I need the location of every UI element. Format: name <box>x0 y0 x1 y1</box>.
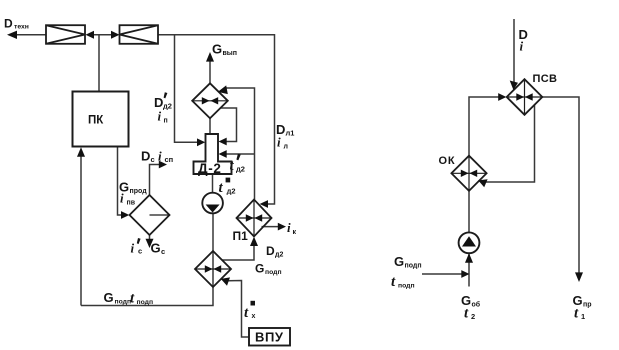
svg-text:i: i <box>158 149 162 164</box>
svg-text:с: с <box>138 247 142 256</box>
svg-text:ПК: ПК <box>88 115 104 127</box>
pump left <box>202 193 223 214</box>
svg-text:д2: д2 <box>236 165 245 174</box>
wire PSV condensate to OK <box>483 105 535 182</box>
svg-text:подп: подп <box>115 298 132 305</box>
wire drop to PK <box>98 35 100 92</box>
wire Gc outlet <box>149 235 151 240</box>
arrowhead into left reducer <box>86 31 95 39</box>
arrowhead Dtehn left <box>7 31 17 39</box>
wire ejector drain <box>220 108 237 142</box>
wire ejector to column <box>209 118 211 134</box>
wire Gpodp inlet right <box>422 273 462 275</box>
svg-text:i: i <box>120 191 124 206</box>
reducer valve right <box>120 25 159 44</box>
wire P1 to ejector <box>225 88 255 200</box>
bowtie OK <box>461 170 477 177</box>
svg-text:Д-2: Д-2 <box>198 161 221 176</box>
svg-text:подп: подп <box>398 283 415 290</box>
wire D-2 to pump <box>212 174 214 193</box>
svg-text:д2: д2 <box>163 101 172 110</box>
svg-text:с: с <box>161 247 165 256</box>
svg-text:сп: сп <box>165 155 174 164</box>
arrowhead ik out <box>278 223 286 231</box>
pump left triangle <box>206 205 220 213</box>
wire Dtehn outlet <box>14 34 46 36</box>
arrowhead VPU into mixer <box>221 277 230 285</box>
svg-text:i: i <box>131 241 135 256</box>
svg-text:техн: техн <box>14 24 29 31</box>
label Gpodp tpodp bottom <box>104 290 154 307</box>
svg-text:G: G <box>104 290 114 305</box>
arrowhead into P1 bottom <box>250 237 258 246</box>
svg-text:G: G <box>151 241 161 256</box>
svg-text:пр: пр <box>583 302 592 309</box>
wire between reducers <box>92 34 114 36</box>
svg-text:П1: П1 <box>233 229 249 243</box>
svg-text:ВПУ: ВПУ <box>255 330 284 345</box>
svg-text:ПСВ: ПСВ <box>533 73 558 85</box>
svg-text:л: л <box>284 144 288 151</box>
arrowhead Gpr down <box>575 272 583 282</box>
svg-text:i: i <box>158 109 162 124</box>
label Gpr t1 <box>573 293 592 322</box>
wire P1 side outlet <box>262 226 279 228</box>
svg-text:д2: д2 <box>227 187 236 196</box>
boiler PK box <box>73 92 129 147</box>
wire riser to P1 bottom <box>222 244 254 260</box>
arrowhead into right reducer <box>111 31 120 39</box>
label ik <box>287 220 297 236</box>
wire riser to D-2 left <box>175 35 199 143</box>
pump right triangle <box>462 236 476 246</box>
wire Gvyp riser <box>209 61 211 83</box>
expander diamond <box>130 195 170 235</box>
arrowhead into D-2 left <box>197 138 205 146</box>
svg-text:л1: л1 <box>286 129 295 138</box>
arrowhead into P1 top right <box>260 200 268 208</box>
svg-text:вып: вып <box>223 50 238 57</box>
label Dc isp <box>141 149 173 165</box>
arrowhead Gpodp right <box>461 270 469 278</box>
bowtie P1 <box>246 214 262 221</box>
bowtie mixer <box>205 265 221 272</box>
arrowhead Gvyp up <box>206 52 214 62</box>
reducer valve left <box>46 25 85 44</box>
arrowhead up into right pump <box>465 253 473 263</box>
arrowhead Gc down <box>146 239 154 248</box>
svg-text:подп: подп <box>137 299 154 306</box>
bowtie ejector <box>202 97 218 104</box>
svg-text:ОК: ОК <box>439 155 456 167</box>
label Gvyp <box>212 42 237 58</box>
wire feedwater to PK <box>80 156 82 306</box>
svg-text:2: 2 <box>471 312 475 321</box>
svg-text:i: i <box>277 135 281 150</box>
wire below pump <box>468 253 470 286</box>
label i'c <box>131 238 143 256</box>
svg-text:д2: д2 <box>275 252 283 259</box>
arrowhead into expander <box>121 211 129 219</box>
label t''d2 <box>219 178 236 196</box>
wire t'd2 branch <box>226 153 255 155</box>
svg-text:i: i <box>520 39 524 54</box>
svg-text:пв: пв <box>127 200 136 207</box>
svg-text:к: к <box>293 229 297 236</box>
svg-text:с: с <box>151 155 155 164</box>
svg-text:G: G <box>255 262 264 276</box>
bowtie PSV <box>516 93 532 100</box>
label Gpodp right of mixer <box>255 262 282 277</box>
label D i right <box>519 27 528 54</box>
svg-text:подп: подп <box>265 269 282 276</box>
cooler OK diamond <box>451 156 486 191</box>
wire VPU line <box>229 281 250 338</box>
label Gc <box>151 241 166 257</box>
arrowhead ejector drain into column <box>219 138 227 146</box>
svg-text:D: D <box>4 17 13 31</box>
svg-text:G: G <box>212 42 222 57</box>
wire Dc outlet <box>150 165 160 196</box>
makeup mixer diamond <box>195 251 231 287</box>
label Gob t2 <box>461 293 481 322</box>
label Dl1 il <box>276 122 294 151</box>
svg-text:х: х <box>252 313 256 320</box>
wire bottom makeup line <box>81 287 213 306</box>
label Dtehn <box>4 17 29 31</box>
label D'd2 ip <box>154 92 172 124</box>
wire pump to mixer <box>212 214 214 252</box>
svg-text:G: G <box>394 254 404 269</box>
label tx* <box>244 301 256 321</box>
wire PSV outlet Gpr <box>542 97 579 273</box>
PSV heater diamond <box>507 79 543 115</box>
pump right <box>459 232 480 253</box>
arrowhead condensate into OK <box>478 179 487 187</box>
arrowhead Dc out <box>159 161 167 169</box>
arrowhead D into PSV <box>510 81 518 90</box>
svg-text:об: об <box>472 301 481 309</box>
svg-text:i: i <box>287 220 291 235</box>
svg-text:п: п <box>164 118 168 125</box>
label Dd2 <box>266 244 283 259</box>
deaerator D-2 tank <box>194 134 232 174</box>
svg-text:прод: прод <box>130 188 148 195</box>
svg-text:D: D <box>141 149 150 164</box>
arrowhead t'd2 into column <box>219 150 227 158</box>
label t'd2 <box>230 154 245 174</box>
wire OK to pump <box>468 191 470 233</box>
wire OK to PSV <box>469 97 500 156</box>
arrowhead into PSV left <box>498 93 506 101</box>
label Gpodp right diagram <box>394 254 422 270</box>
svg-text:1: 1 <box>581 312 585 321</box>
wire top main steam line <box>158 35 275 204</box>
svg-text:D: D <box>266 244 275 258</box>
heater P1 diamond <box>237 200 272 237</box>
arrowhead into PK bottom <box>77 147 85 157</box>
VPU box <box>249 328 290 346</box>
label Gprod ipv <box>119 180 147 207</box>
wire mixer vertical through <box>212 251 214 287</box>
ejector heater diamond <box>192 83 228 118</box>
wire PK blowdown down <box>118 147 123 216</box>
arrowhead into ejector from P1 line <box>218 85 228 94</box>
label tpodp right diagram <box>391 274 415 290</box>
svg-text:подп: подп <box>405 263 422 270</box>
wire D right diagram <box>513 19 515 84</box>
